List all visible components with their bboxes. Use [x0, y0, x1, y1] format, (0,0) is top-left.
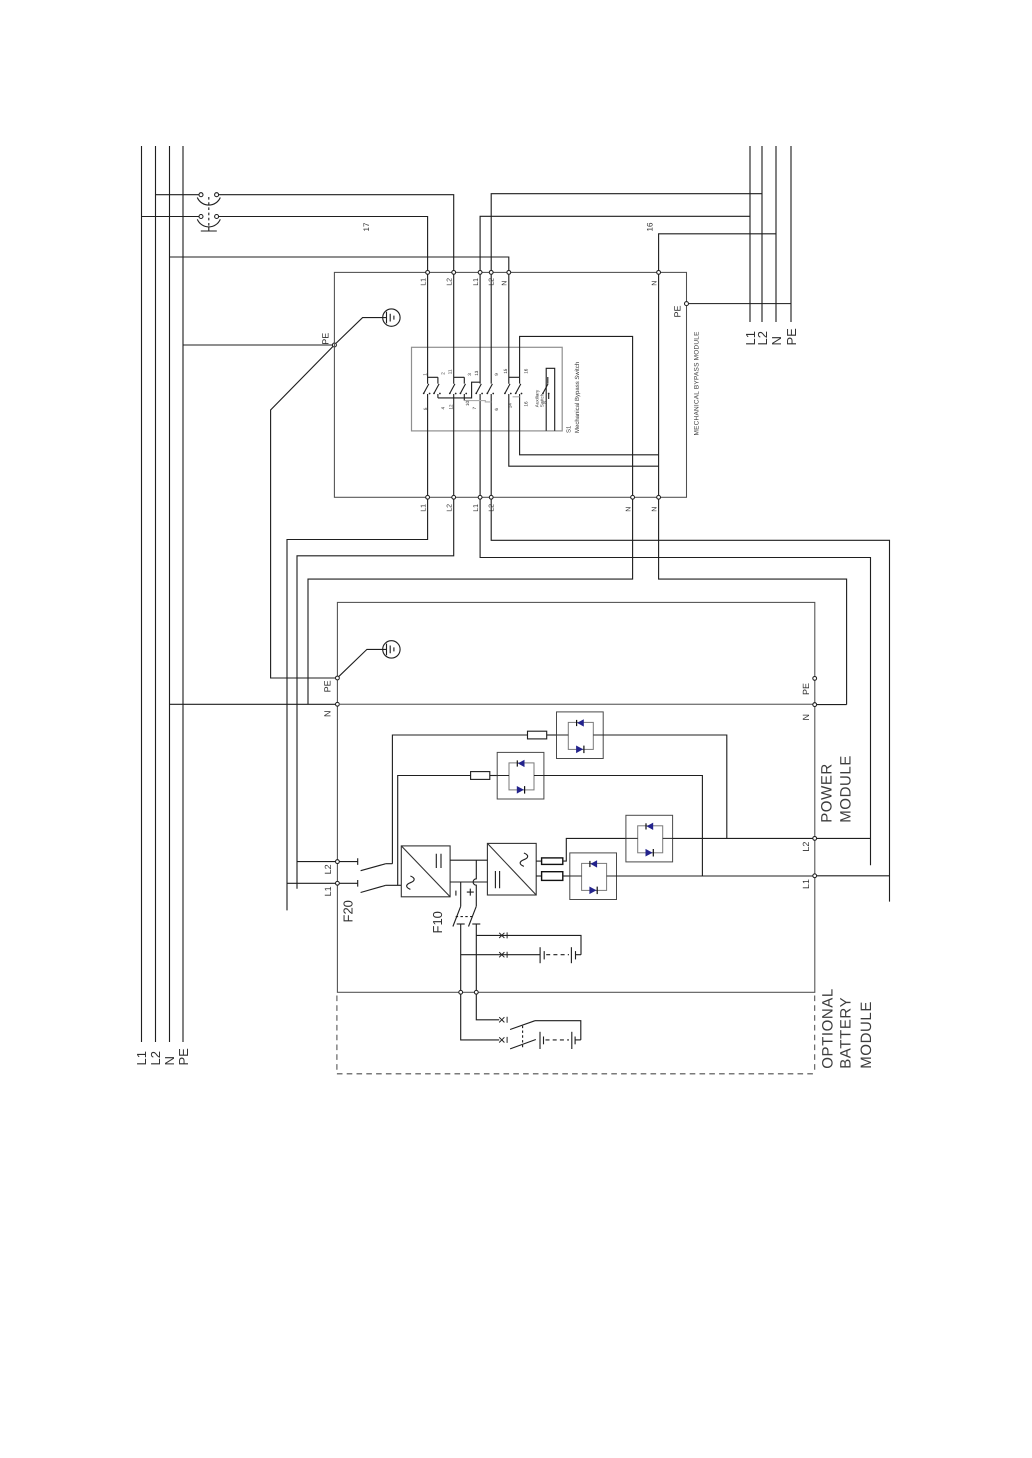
svg-text:L2: L2: [447, 278, 454, 286]
wire 17 switch pole2 to bypass L1 top terminal: [219, 217, 428, 271]
wire DC link lower: [450, 881, 487, 883]
svg-text:6: 6: [494, 408, 499, 411]
switch S1 contact 2: [433, 384, 441, 398]
switch S1 crossbar pair 1: [428, 377, 438, 383]
node PE output label: [784, 328, 799, 346]
thyristor static switch block 1 (bypass L2): [557, 712, 604, 759]
node contact number 14: [507, 403, 512, 409]
wire F20 L1 up to static bypass fuse 2: [398, 776, 471, 886]
fuse F2 static bypass L1: [471, 772, 498, 780]
wire PE input rail: [182, 146, 184, 1042]
svg-text:N: N: [625, 507, 632, 512]
wire 16 bypass L1 output up and right to output rail L1: [480, 216, 750, 270]
wire DC link upper: [450, 859, 487, 861]
node power module L2 right: [801, 837, 816, 852]
wire block1 output to L2 output line: [603, 735, 727, 838]
wire N input rail: [169, 146, 171, 1042]
svg-text:N: N: [651, 281, 658, 286]
wire L1 output rail: [749, 146, 751, 322]
node contact number 8 aux: [542, 401, 547, 404]
node battery terminal minus on module edge: [459, 990, 463, 994]
svg-text:L2: L2: [488, 504, 495, 512]
wire inverter output 1 to fuse F3: [536, 860, 541, 862]
svg-text:L2: L2: [447, 504, 454, 512]
fuse F3 inverter output L2: [542, 858, 563, 865]
svg-text:17: 17: [362, 222, 371, 231]
svg-text:16: 16: [524, 401, 529, 407]
switch F10 battery pole minus: [453, 906, 465, 990]
node power module PE left: [322, 676, 339, 692]
switch S1 designator and name: [566, 362, 581, 433]
switch S1 crossbar pair 2: [454, 377, 465, 383]
switch S1 contact 15 (N): [504, 384, 512, 395]
svg-text:OPTIONAL: OPTIONAL: [819, 988, 836, 1069]
svg-text:1: 1: [422, 373, 427, 376]
power module box: [337, 602, 814, 992]
node L1 rail label: [134, 1051, 149, 1065]
wire L1 input rail: [141, 146, 143, 1042]
switch battery breaker mechanical link: [522, 1026, 524, 1049]
node PE rail label: [176, 1048, 191, 1066]
svg-text:N: N: [162, 1056, 177, 1065]
node bypass bottom terminal L1: [420, 495, 429, 511]
svg-text:N: N: [502, 281, 509, 286]
svg-text:L2: L2: [801, 842, 811, 852]
wire jumper contact12 to contact13: [464, 401, 491, 402]
mechanical bypass module box: [334, 272, 686, 497]
wire jumper contact2 to contact3: [438, 382, 480, 398]
wire external battery plus row: [476, 994, 499, 1020]
wire L2 input rail: [155, 146, 157, 1042]
wire block4 output to power module L1 terminal: [617, 875, 813, 877]
svg-text:PE: PE: [801, 683, 811, 695]
node bypass top terminal N right: [651, 271, 660, 286]
svg-text:8: 8: [542, 401, 547, 404]
switch S1 contact 11 (L2): [449, 384, 457, 395]
svg-text:16: 16: [645, 222, 654, 231]
svg-text:15: 15: [503, 368, 508, 374]
svg-text:N: N: [322, 711, 332, 718]
svg-text:S1: S1: [566, 425, 573, 433]
svg-text:5: 5: [423, 407, 428, 410]
wire N rail to bypass N top terminal: [170, 257, 509, 270]
node bypass bottom terminal N1: [625, 495, 634, 511]
switch F10 battery pole plus: [469, 906, 481, 990]
wire bypass L2 bottom down-left to power module L2: [297, 499, 454, 889]
wire bypass N2 bottom down-right to power module right N: [659, 499, 847, 704]
svg-text:F10: F10: [430, 911, 445, 933]
svg-text:Switch: Switch: [540, 393, 545, 407]
node power module L1 right: [801, 874, 816, 889]
svg-text:10: 10: [465, 400, 470, 406]
svg-text:POWER: POWER: [819, 763, 836, 823]
svg-text:N: N: [769, 336, 784, 345]
svg-text:9: 9: [494, 373, 499, 376]
node contact number 3: [467, 373, 472, 376]
node bypass bottom terminal L2: [447, 495, 456, 511]
wire power module L1 right terminal horizontal: [817, 875, 890, 877]
wire F20 L2 up to static bypass fuse 1: [392, 735, 527, 864]
switch Q1 input disconnector pole 2: [197, 215, 220, 227]
switch S1 contact 3 (L1 out): [475, 384, 483, 395]
wire N bus inside power module: [339, 703, 812, 705]
wire bypass L2 output up and right to output rail L2: [491, 194, 762, 271]
svg-text:L1: L1: [473, 278, 480, 286]
svg-text:L1: L1: [420, 504, 427, 512]
node battery fuse link X external minus: [499, 1037, 507, 1043]
wire bypass N right terminal up and right to output rail N: [659, 234, 776, 271]
node contact number 16 bottom: [524, 401, 529, 407]
rectifier AC-DC converter: [401, 846, 450, 897]
node contact number 10: [465, 400, 470, 406]
switch S1 contact 13 (L2 out): [486, 384, 494, 395]
wire bypass L1 bottom down-left to power module L1: [287, 499, 428, 910]
wire L2 rail to switch pole 1: [156, 194, 200, 196]
svg-text:L2: L2: [755, 331, 770, 345]
node bypass bottom terminal L1 out: [473, 495, 482, 511]
label POWER MODULE: [819, 755, 855, 823]
ground earth symbol bypass module: [336, 309, 400, 344]
wire bypass L1-out bottom down-right to power module right L2: [480, 499, 870, 865]
svg-text:PE: PE: [673, 305, 683, 317]
wire external battery plus to string: [535, 1021, 581, 1040]
svg-text:L2: L2: [323, 864, 333, 874]
wire power module L2 right terminal horizontal: [817, 837, 871, 839]
battery internal string cells: [540, 947, 581, 963]
svg-text:MODULE: MODULE: [837, 755, 854, 823]
wire L2 output rail: [761, 146, 763, 322]
svg-text:N: N: [651, 507, 658, 512]
node L2 rail label: [148, 1051, 163, 1065]
switch F20 pole L1: [339, 880, 401, 893]
wire contact 16 bottom to N2: [520, 394, 659, 455]
node battery fuse link X plus row: [499, 932, 507, 938]
svg-text:11: 11: [447, 369, 452, 374]
node battery fuse link X external plus: [499, 1017, 507, 1023]
node plus polarity mark: [467, 889, 474, 896]
node PE bypass module: [320, 333, 336, 347]
switch S1 contact 12: [460, 384, 468, 401]
ground earth symbol power module: [339, 641, 400, 677]
switch S1 auxiliary contact: [542, 384, 550, 399]
wire power module L2 left feeder horizontal: [297, 861, 335, 863]
svg-text:13: 13: [474, 370, 479, 376]
wire N through bypass switch: [509, 274, 659, 466]
wire battery plus tap with crossover hop: [473, 860, 476, 906]
node wire number 17: [362, 222, 371, 231]
node power module N right: [801, 703, 817, 721]
wire fuse F4 to thyristor block 4: [563, 875, 570, 877]
wire L1 rail to switch pole 2: [142, 216, 200, 218]
wire N2 through vertical: [658, 274, 660, 495]
label OPTIONAL BATTERY MODULE: [819, 988, 875, 1069]
node contact number 9: [494, 373, 499, 376]
wire auxiliary switch loop: [546, 368, 555, 431]
switch Q1 input disconnector pole 1: [197, 193, 220, 205]
svg-text:L1: L1: [473, 504, 480, 512]
svg-text:4: 4: [440, 407, 445, 410]
node contact number 16 top: [523, 368, 528, 374]
node bypass top terminal L1 output: [473, 271, 482, 286]
optional battery module dashed box: [337, 996, 815, 1074]
switch Q1 mechanical link: [201, 197, 217, 231]
svg-text:7: 7: [472, 407, 477, 410]
node N rail label: [162, 1056, 177, 1065]
wire L1 output through bypass switch: [479, 274, 481, 495]
switch F10 mechanical link: [456, 916, 473, 918]
wire jumper contact15 to contact16: [513, 396, 520, 398]
wire PE output rail: [790, 146, 792, 322]
svg-text:L1: L1: [134, 1051, 149, 1065]
fuse F1 static bypass L2: [528, 731, 557, 739]
inverter DC-AC converter: [487, 843, 536, 895]
svg-text:F20: F20: [341, 900, 356, 922]
svg-text:PE: PE: [322, 680, 332, 692]
wire block3 output to power module L2 terminal: [673, 837, 813, 839]
node contact number 4: [440, 407, 445, 410]
node power module L2 left: [323, 860, 339, 875]
node power module PE right: [801, 677, 817, 696]
fuse F4 inverter output L1: [542, 872, 563, 881]
node minus polarity mark: [455, 891, 457, 896]
node power module N left: [322, 702, 339, 717]
wire bypass N1 bottom down-left to power module N: [308, 499, 633, 704]
svg-text:MODULE: MODULE: [858, 1001, 875, 1069]
svg-text:3: 3: [467, 373, 472, 376]
node bypass top terminal L2 output: [488, 271, 495, 286]
switch battery breaker pole minus: [510, 1040, 536, 1049]
node bypass top terminal L1: [420, 271, 429, 286]
switch S1 contact 1 (L1): [423, 384, 431, 395]
switch F20 pole L2: [339, 858, 392, 870]
wire PE rail to bypass PE node: [183, 344, 333, 346]
wire block2 output to L1 output line: [544, 776, 703, 877]
switch S1 bank enclosure box: [412, 347, 563, 431]
node N output label: [769, 336, 784, 345]
node contact number 2: [440, 372, 445, 375]
node bypass bottom terminal L2 out: [488, 495, 495, 511]
wire bypass PE terminal to output rail PE: [689, 303, 792, 305]
wire internal battery plus row: [476, 935, 581, 954]
node F20 label: [341, 900, 356, 922]
svg-text:L1: L1: [420, 278, 427, 286]
node battery fuse link X minus row: [499, 952, 507, 958]
svg-text:PE: PE: [176, 1048, 191, 1066]
thyristor block 4 (inverter L1): [570, 853, 617, 900]
svg-text:2: 2: [440, 372, 445, 375]
node bypass PE right terminal: [673, 302, 689, 318]
wire N output rail: [775, 146, 777, 322]
wire L2 through bypass switch: [453, 274, 455, 495]
svg-text:N: N: [801, 714, 811, 721]
node power module L1 left: [323, 881, 339, 896]
node bypass top terminal L2: [447, 271, 456, 286]
svg-text:16: 16: [523, 368, 528, 374]
svg-text:Mechanical Bypass Switch: Mechanical Bypass Switch: [574, 362, 581, 433]
wire fuse F3 to thyristor block 3: [563, 838, 626, 861]
node bypass bottom terminal N2: [651, 495, 660, 511]
wire inverter output 2 to fuse F4: [536, 875, 541, 877]
wire external battery minus row: [461, 994, 500, 1040]
wire L2 output through bypass switch: [490, 274, 492, 495]
node contact number 5: [423, 407, 428, 410]
switch S1 crossbar pair N: [509, 376, 520, 378]
node L1 output label: [743, 331, 758, 345]
label MECHANICAL BYPASS MODULE: [694, 331, 701, 436]
svg-text:MECHANICAL BYPASS MODULE: MECHANICAL BYPASS MODULE: [694, 331, 701, 436]
svg-text:14: 14: [507, 403, 512, 409]
wire internal battery minus row: [461, 954, 540, 956]
node contact number 12: [449, 404, 454, 410]
wire power module L1 left feeder horizontal: [287, 882, 335, 884]
node contact number 7: [472, 407, 477, 410]
node contact number 6: [494, 408, 499, 411]
svg-text:12: 12: [449, 404, 454, 410]
wire N rail to power module N: [170, 703, 336, 705]
battery external string cells: [540, 1032, 581, 1049]
wire bypass L2-out bottom down-right to power module right L1: [491, 499, 889, 901]
node F10 label: [430, 911, 445, 933]
node contact number 1: [422, 373, 427, 376]
node contact number 13: [474, 370, 479, 376]
wire N1 hat from contact 16 over to N1 bottom terminal: [520, 336, 633, 495]
node wire number 16: [645, 222, 654, 231]
svg-text:L1: L1: [323, 886, 333, 896]
svg-text:L2: L2: [148, 1051, 163, 1065]
thyristor block 3 (inverter L2): [626, 815, 673, 862]
node battery terminal plus on module edge: [474, 990, 478, 994]
node contact number 11: [447, 369, 452, 374]
node bypass top terminal N: [502, 271, 511, 286]
wire switch pole1 to bypass L2 top terminal: [219, 195, 454, 271]
switch battery breaker pole plus: [510, 1021, 535, 1030]
wire battery minus tap: [460, 882, 462, 906]
svg-text:L1: L1: [801, 879, 811, 889]
svg-text:L2: L2: [488, 278, 495, 286]
svg-text:BATTERY: BATTERY: [838, 997, 855, 1069]
wire L1 through bypass switch: [427, 274, 429, 495]
node L2 output label: [755, 331, 770, 345]
svg-text:PE: PE: [784, 328, 799, 346]
wire PE bypass node down to power module PE: [271, 347, 336, 679]
node contact number 15 top: [503, 368, 508, 374]
thyristor static switch block 2 (bypass L1): [497, 752, 544, 799]
node auxiliary switch label: [535, 389, 545, 407]
switch S1 contact 16: [515, 377, 523, 394]
svg-text:PE: PE: [320, 333, 330, 345]
